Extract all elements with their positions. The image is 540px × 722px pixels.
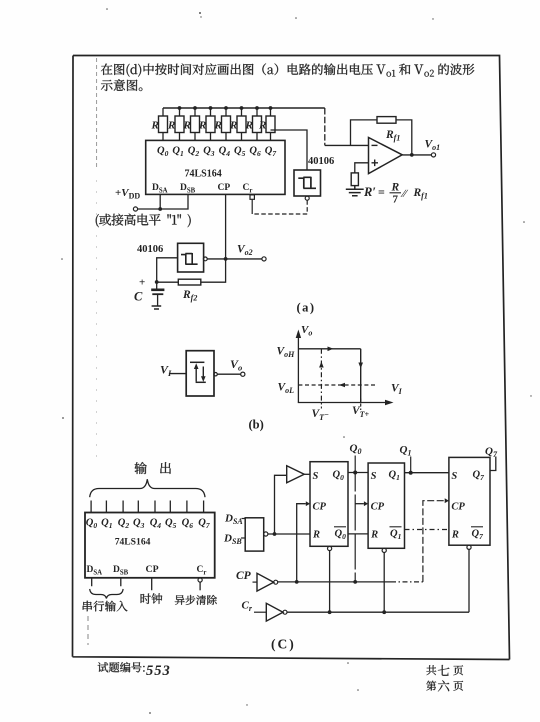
wire output (b) — [217, 373, 241, 375]
junction node on bus — [193, 106, 197, 110]
svg-text:R′: R′ — [363, 185, 376, 199]
wire: Q7/R8 node to 40106 input — [271, 130, 308, 170]
flip-flop FF1 — [368, 463, 404, 548]
bubble gate output — [264, 532, 268, 536]
resistor Rf1 — [377, 117, 396, 124]
label 输出 (outputs) — [135, 462, 171, 474]
svg-text:R: R — [151, 120, 159, 132]
footer label 试题编号 — [98, 662, 145, 672]
resistor R (output Q4 pull-up) — [214, 108, 231, 141]
schmitt trigger 40106 U3 — [178, 243, 208, 272]
labels Q0-Q7 (figure c) — [86, 518, 210, 531]
hysteresis left vertical dashed — [320, 349, 322, 403]
wire DSA to gate — [242, 518, 246, 520]
resistor R (output Q7 pull-up) — [258, 108, 275, 141]
svg-text:CP: CP — [313, 502, 327, 513]
wire gate output to FF1 R — [268, 533, 310, 535]
wire: C node to 40106 input — [157, 258, 178, 282]
clear bus wire — [287, 611, 469, 613]
svg-text:74LS164: 74LS164 — [185, 169, 222, 180]
resistor R (output Q1 pull-up) — [167, 108, 184, 141]
wire: 40106 output to Cr — [252, 200, 307, 214]
wire FF1 CP hook — [355, 503, 364, 505]
wire DSB to gate — [241, 537, 245, 539]
svg-text:CP: CP — [146, 564, 159, 575]
wire FF1 async to clear bus — [383, 553, 385, 613]
svg-text:CP: CP — [451, 502, 465, 513]
input pin stubs — [92, 578, 152, 591]
hysteresis right vertical — [360, 349, 362, 403]
bubble Cr inverter — [283, 610, 287, 614]
svg-text:(a): (a) — [297, 301, 316, 315]
svg-text:R: R — [451, 530, 459, 541]
wire Cr to inverter — [254, 611, 266, 613]
resistor Rf2 — [178, 279, 201, 285]
resistor R (output Q3 pull-up) — [198, 108, 215, 141]
wire riser to S buffer — [275, 475, 287, 534]
problem statement text line 2 — [101, 79, 142, 91]
terminal Vo1 — [431, 153, 435, 157]
inverter U7 (Cr) — [266, 603, 283, 621]
junction node on bus — [240, 106, 244, 110]
fold dashed line — [96, 58, 98, 170]
flip-flop FF7 — [449, 457, 490, 545]
svg-text:+: + — [139, 277, 145, 289]
svg-text:C: C — [134, 290, 143, 304]
svg-text:R: R — [214, 120, 222, 132]
svg-text:(C): (C) — [271, 637, 296, 652]
junction op-amp output — [410, 153, 414, 157]
resistor R (output Q0 pull-up) — [151, 108, 168, 141]
svg-text:S: S — [371, 471, 377, 482]
junction node on bus — [269, 106, 273, 110]
wire: oscillator output to Vo2 — [207, 258, 262, 260]
op-amp U2 — [369, 138, 403, 174]
svg-text:R: R — [370, 530, 378, 541]
wire: feedback to Rf2 — [157, 259, 226, 282]
formula R' = R/7 // Rf1 — [363, 182, 428, 206]
svg-text:S: S — [451, 471, 457, 482]
junction C node — [155, 280, 159, 284]
svg-text:R: R — [167, 120, 175, 132]
wire FF7 CP riser — [423, 501, 445, 582]
output pin stubs Q0-Q7 — [91, 501, 204, 513]
svg-text:R: R — [258, 120, 266, 132]
svg-text:S: S — [313, 471, 319, 482]
svg-text:R: R — [245, 120, 253, 132]
wire Q0 net — [354, 456, 356, 582]
CP bus wire — [278, 581, 391, 583]
wire FF1 Qbar to FF7 R (dashed, omitted stages) — [405, 529, 449, 531]
problem statement text line 1 — [101, 63, 475, 76]
bubble FF0 async — [328, 546, 332, 550]
junction FF0 CP on bus — [295, 580, 299, 584]
schmitt block (figure b) — [186, 351, 214, 396]
wire FF7 async to clear bus — [468, 549, 470, 612]
wire: resistor summing bus — [163, 108, 369, 145]
gate U4 (DSA·DSB) — [245, 518, 264, 551]
resistor R (output Q2 pull-up) — [183, 108, 200, 141]
inverter U6 (CP) — [257, 573, 274, 591]
wire op-amp output — [402, 154, 431, 156]
svg-text:R: R — [391, 182, 400, 194]
junction gate output — [273, 532, 277, 536]
ground (op-amp) — [346, 186, 364, 196]
junction FF1 CP on bus — [353, 580, 357, 584]
flip-flop FF0 — [310, 462, 348, 547]
svg-text:(b): (b) — [249, 418, 264, 432]
footer 共七页 — [426, 665, 463, 676]
svg-text:CP: CP — [371, 502, 385, 513]
wire: VDD to DSA DSB — [138, 195, 188, 210]
pin labels Q0-Q7 — [157, 146, 276, 159]
terminal Cr (square) — [250, 195, 254, 199]
clock wedge FF1 — [364, 501, 368, 506]
axis VI (horizontal) — [298, 402, 389, 404]
bubble on Cr pin — [198, 578, 202, 582]
bubble CP inverter — [274, 580, 278, 584]
note: or connect to high level "1" — [96, 214, 191, 228]
hysteresis bottom dashed VoL — [298, 384, 376, 386]
IC 74LS164 (figure c) — [85, 513, 215, 578]
resistor R (output Q5 pull-up) — [229, 108, 246, 141]
clock wedge FF0 — [306, 501, 310, 506]
junction FF0 clear — [328, 610, 332, 614]
capacitor C (electrolytic) — [134, 277, 164, 306]
ground (capacitor) — [152, 306, 162, 309]
fold dashes lower left — [87, 616, 89, 645]
terminal Vo2 — [262, 257, 266, 261]
wire Q1 net riser — [410, 457, 412, 473]
junction Q1/S — [409, 471, 413, 475]
clock wedge FF7 — [445, 498, 449, 503]
wire buffer to FF1 S — [304, 473, 310, 475]
wire Q1 to FF7 S — [405, 472, 449, 474]
bubble output (b) — [214, 373, 217, 376]
junction DSA — [158, 207, 162, 211]
svg-text:=: = — [378, 185, 385, 199]
overbrace for outputs — [90, 479, 205, 497]
buffer U5 — [287, 466, 305, 483]
wire: CP riser to 74LS164 — [225, 195, 227, 259]
svg-text:74LS164: 74LS164 — [115, 537, 151, 548]
wire CP to inverter — [253, 581, 258, 583]
junction Q0/S — [353, 471, 357, 475]
label 串行输入 (serial input) — [83, 601, 128, 612]
wire: feedback tap — [351, 120, 412, 155]
hysteresis arrows symbol — [190, 362, 206, 382]
hysteresis top line VoH — [298, 348, 360, 350]
svg-text:553: 553 — [146, 663, 171, 679]
resistor R (output Q6 pull-up) — [245, 108, 262, 141]
junction node on bus — [255, 106, 259, 110]
IC 74LS164 (figure a) — [146, 140, 285, 194]
bubble FF1 async — [382, 548, 386, 552]
svg-text:40106: 40106 — [308, 156, 334, 167]
terminal Vo (b) — [241, 372, 245, 376]
svg-text:7: 7 — [393, 194, 399, 206]
svg-text:40106: 40106 — [137, 244, 163, 255]
wire FF0 Qbar to FF1 R — [348, 533, 368, 535]
svg-text:R: R — [312, 530, 320, 541]
label 异步清除 (async clear) — [175, 595, 217, 605]
page border frame — [73, 56, 510, 660]
label 时钟 (clock) — [141, 593, 163, 604]
svg-text:R: R — [198, 120, 206, 132]
svg-text:CP: CP — [236, 570, 252, 582]
junction node on bus — [209, 106, 213, 110]
wire input (b) — [169, 373, 186, 375]
ticks below axis — [320, 403, 322, 410]
resistor R' — [351, 173, 358, 186]
wire Q7 output — [490, 457, 496, 471]
bubble FF7 async — [467, 545, 471, 549]
junction FF1 clear — [382, 610, 386, 614]
svg-text:CP: CP — [218, 183, 231, 193]
svg-text:R: R — [229, 120, 237, 132]
junction node on bus — [178, 106, 182, 110]
junction node on bus — [224, 106, 228, 110]
terminal +VDD — [133, 207, 137, 211]
wire: + input to Rp — [355, 163, 369, 173]
footer 第六页 — [426, 680, 463, 691]
junction Vo2/CP — [224, 257, 228, 261]
schmitt trigger 40106 U1 — [294, 170, 321, 200]
wire FF0 async to clear bus — [329, 551, 331, 613]
axis Vo (vertical) — [297, 334, 299, 403]
wire FF0 CP input — [297, 504, 306, 582]
underbrace serial inputs — [90, 589, 123, 599]
svg-text:R: R — [183, 120, 191, 132]
